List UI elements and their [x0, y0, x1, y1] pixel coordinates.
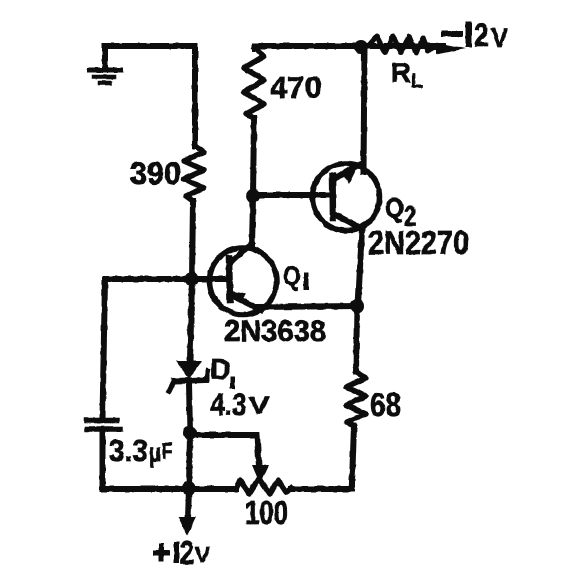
svg-text:V: V [491, 23, 508, 53]
svg-text:4.3: 4.3 [211, 386, 247, 422]
svg-text:2: 2 [404, 201, 417, 233]
svg-text:68: 68 [370, 386, 401, 423]
svg-text:F: F [162, 439, 173, 464]
svg-text:μ: μ [149, 438, 161, 468]
svg-text:Q: Q [284, 261, 301, 291]
svg-text:390: 390 [130, 155, 181, 191]
svg-text:Q: Q [385, 193, 404, 223]
svg-text:V: V [249, 393, 270, 420]
svg-text:V: V [195, 543, 210, 568]
svg-text:R: R [391, 57, 411, 88]
svg-text:100: 100 [245, 494, 288, 531]
svg-text:470: 470 [270, 70, 322, 105]
svg-text:2N3638: 2N3638 [224, 315, 326, 348]
svg-text:L: L [411, 71, 423, 92]
svg-text:2N2270: 2N2270 [368, 224, 469, 261]
svg-text:2: 2 [180, 534, 194, 571]
svg-text:D: D [210, 354, 231, 386]
svg-text:3.3: 3.3 [109, 434, 148, 468]
svg-text:2: 2 [474, 17, 489, 53]
